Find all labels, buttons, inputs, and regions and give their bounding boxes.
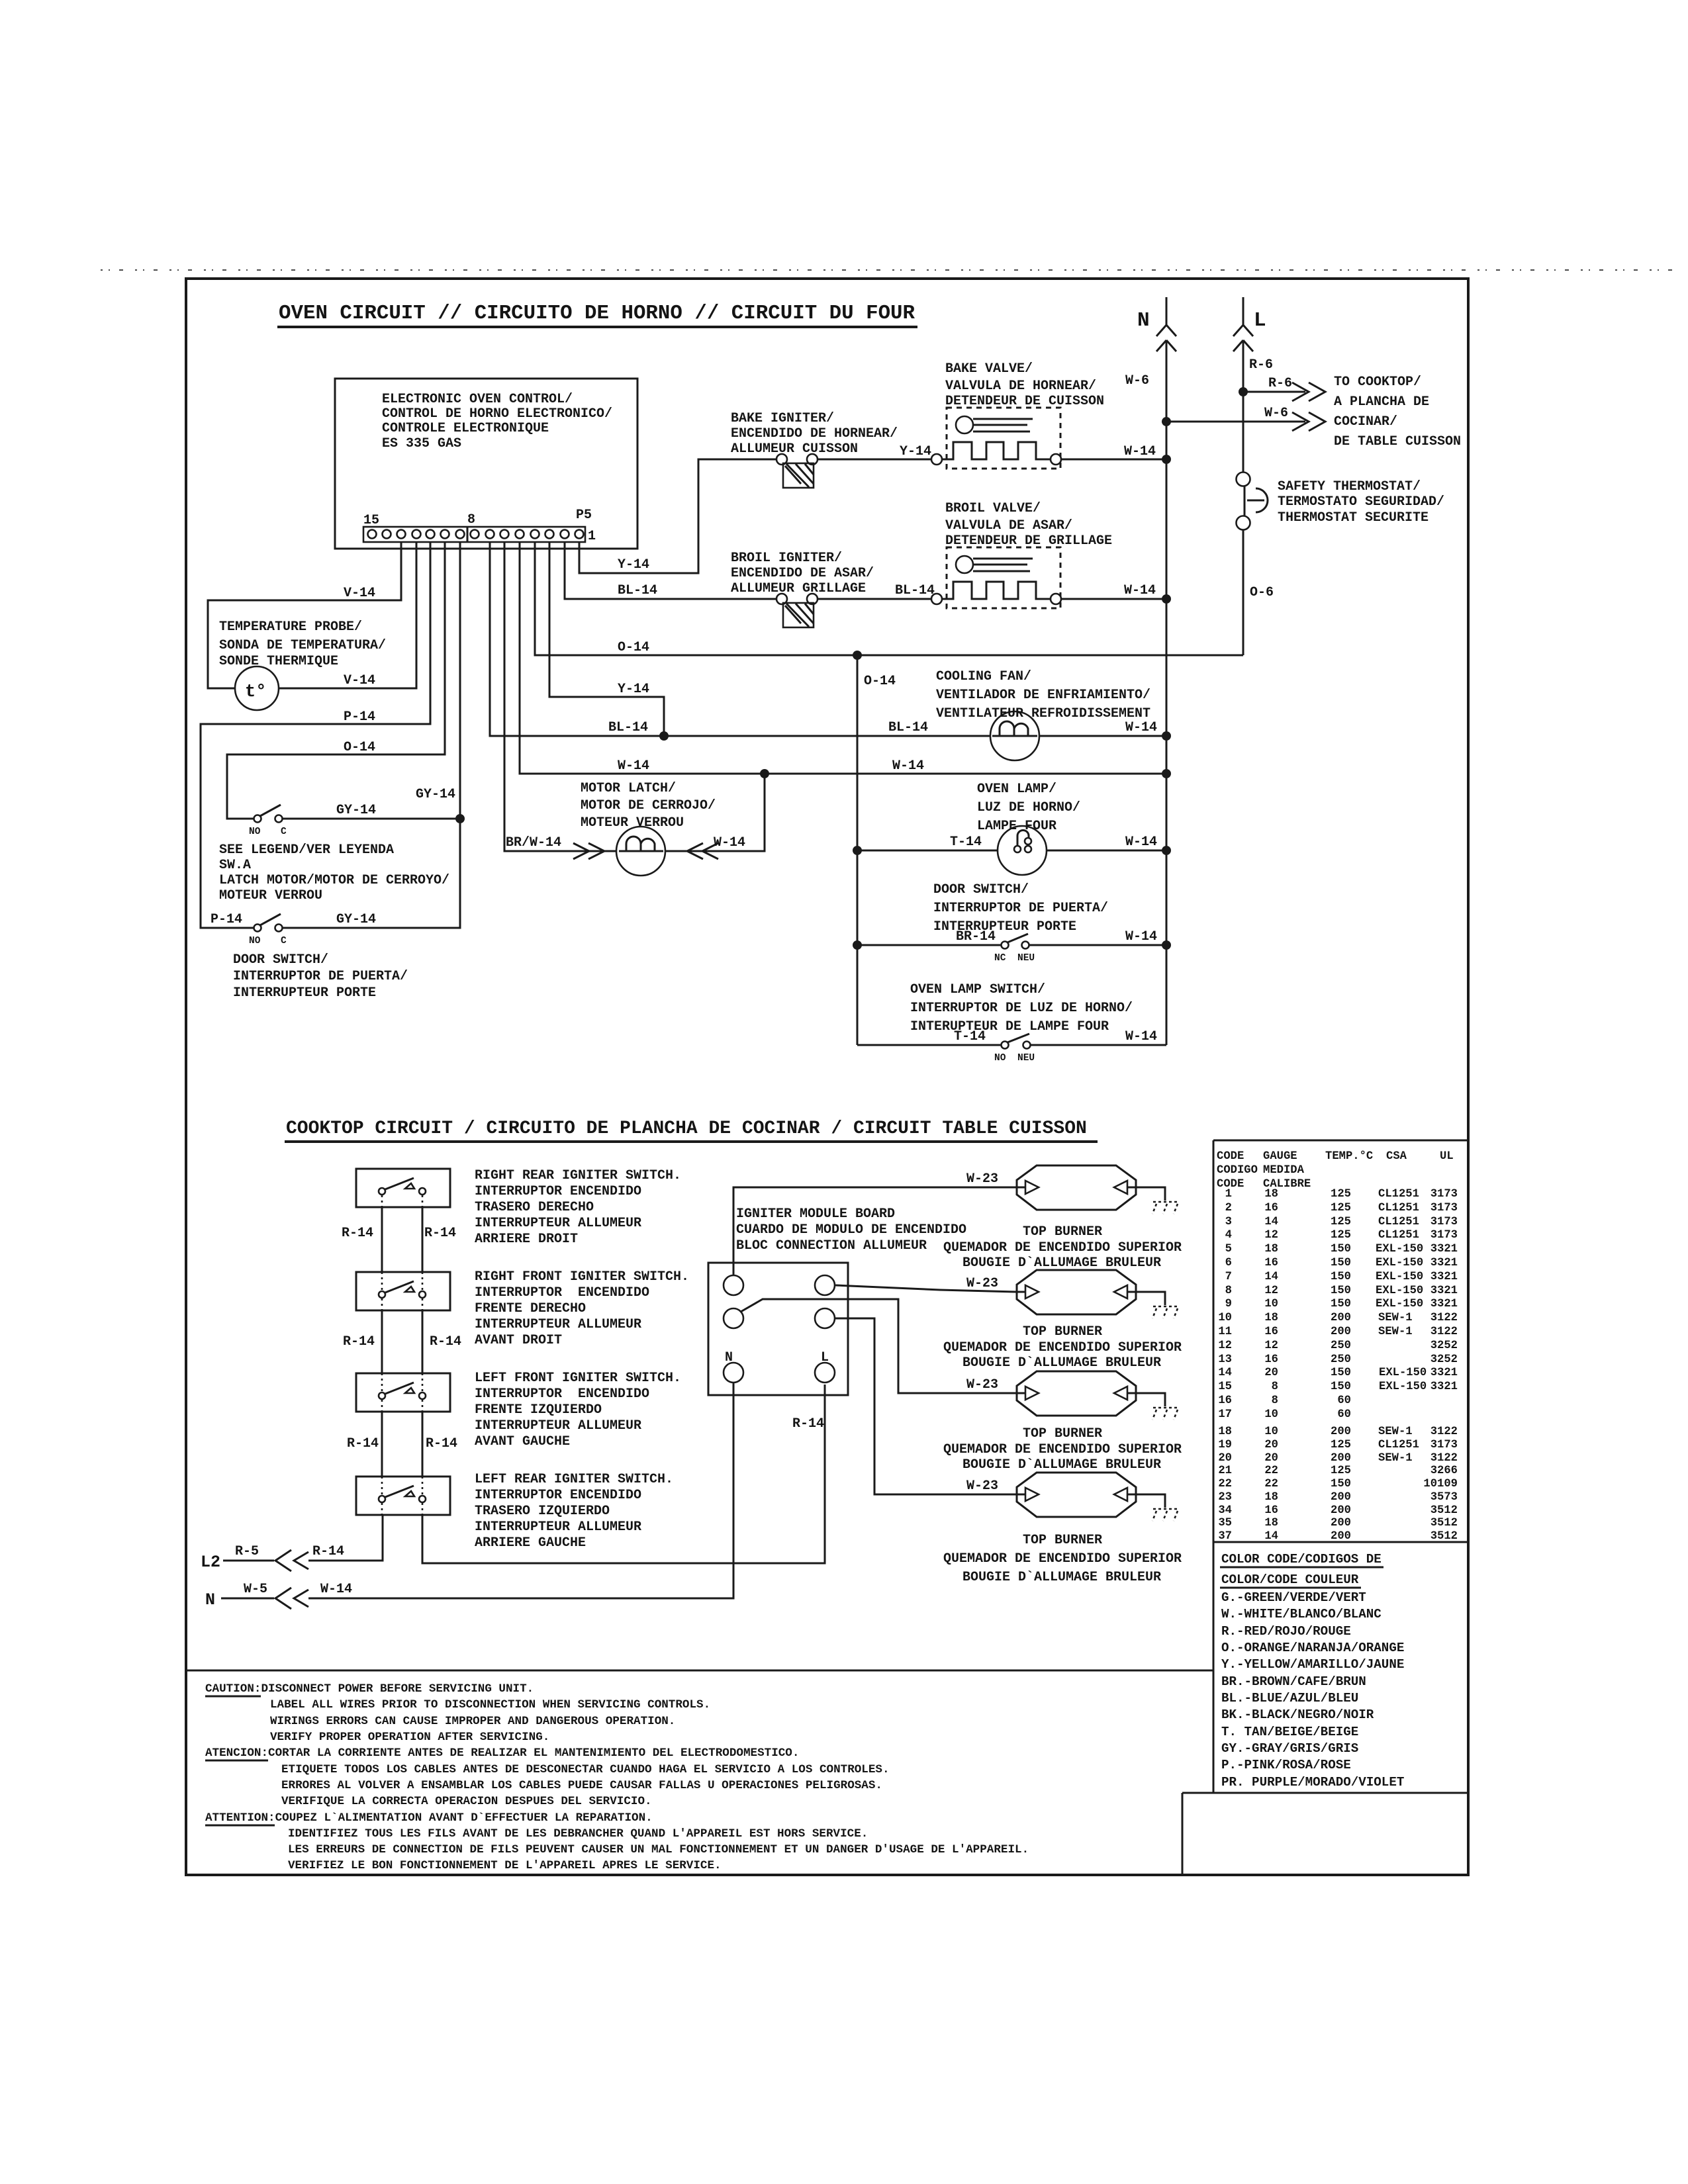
svg-text:15: 15	[1218, 1381, 1232, 1393]
svg-text:INTERRUPTEUR ALLUMEUR: INTERRUPTEUR ALLUMEUR	[475, 1418, 641, 1433]
door switch NC	[1002, 942, 1009, 949]
pin 7	[486, 530, 494, 539]
svg-text:14: 14	[1218, 1367, 1232, 1379]
svg-text:DE TABLE CUISSON: DE TABLE CUISSON	[1334, 434, 1461, 449]
svg-text:200: 200	[1331, 1491, 1351, 1504]
svg-text:MOTOR DE CERROJO/: MOTOR DE CERROJO/	[581, 798, 716, 813]
svg-text:LATCH MOTOR/MOTOR DE CERROYO/: LATCH MOTOR/MOTOR DE CERROYO/	[219, 873, 449, 888]
svg-text:DOOR SWITCH/: DOOR SWITCH/	[933, 882, 1029, 897]
svg-text:3122: 3122	[1430, 1426, 1458, 1438]
svg-text:23: 23	[1218, 1491, 1232, 1504]
oven lamp switch NO	[1002, 1042, 1009, 1049]
svg-text:3512: 3512	[1430, 1504, 1458, 1517]
svg-text:COOLING FAN/: COOLING FAN/	[936, 669, 1031, 684]
svg-text:CL1251: CL1251	[1378, 1229, 1419, 1242]
wire R-14 between switch 2 and 3	[382, 1298, 422, 1392]
svg-text:O-14: O-14	[618, 640, 649, 655]
svg-text:10: 10	[1218, 1312, 1232, 1324]
svg-text:35: 35	[1218, 1517, 1232, 1529]
svg-text:THERMOSTAT SECURITE: THERMOSTAT SECURITE	[1278, 510, 1429, 525]
svg-text:DETENDEUR DE CUISSON: DETENDEUR DE CUISSON	[945, 394, 1104, 409]
svg-text:3173: 3173	[1430, 1439, 1458, 1451]
svg-text:EXL-150: EXL-150	[1376, 1285, 1423, 1297]
svg-text:R-14: R-14	[312, 1544, 344, 1559]
svg-text:GY-14: GY-14	[416, 787, 455, 802]
svg-text:OVEN CIRCUIT // CIRCUITO DE HO: OVEN CIRCUIT // CIRCUITO DE HORNO // CIR…	[279, 302, 915, 325]
caution box top divider	[186, 1670, 1213, 1672]
pin 5	[516, 530, 524, 539]
svg-text:19: 19	[1218, 1439, 1232, 1451]
caution notice text	[205, 1682, 1029, 1872]
svg-text:CL1251: CL1251	[1378, 1439, 1419, 1451]
svg-text:125: 125	[1331, 1439, 1351, 1451]
svg-text:125: 125	[1331, 1465, 1351, 1477]
svg-text:TOP BURNER: TOP BURNER	[1023, 1224, 1102, 1240]
latch motor switch SW.A	[254, 815, 261, 823]
svg-text:TOP BURNER: TOP BURNER	[1023, 1324, 1102, 1340]
wire W-6 arrow to cooktop	[1166, 421, 1305, 423]
svg-text:VALVULA DE HORNEAR/: VALVULA DE HORNEAR/	[945, 379, 1096, 394]
svg-text:3173: 3173	[1430, 1216, 1458, 1228]
svg-text:R-6: R-6	[1249, 357, 1273, 373]
svg-text:TRASERO DERECHO: TRASERO DERECHO	[475, 1200, 594, 1215]
color code box bottom edge	[1182, 1792, 1468, 1794]
svg-text:8: 8	[467, 512, 475, 527]
node broil W-14	[1162, 594, 1171, 604]
svg-text:W-14: W-14	[618, 758, 649, 774]
svg-text:AVANT GAUCHE: AVANT GAUCHE	[475, 1434, 570, 1449]
wire W-14 pin5	[520, 542, 1166, 774]
svg-text:8: 8	[1225, 1285, 1232, 1297]
svg-text:12: 12	[1218, 1340, 1232, 1352]
svg-text:BLOC CONNECTION ALLUMEUR: BLOC CONNECTION ALLUMEUR	[736, 1238, 927, 1253]
svg-text:CL1251: CL1251	[1378, 1216, 1419, 1228]
svg-text:R-14: R-14	[347, 1436, 379, 1451]
svg-text:200: 200	[1331, 1517, 1351, 1529]
cooling fan motor	[990, 711, 1039, 760]
svg-text:W-14: W-14	[1125, 929, 1157, 944]
broil igniter	[776, 594, 787, 604]
svg-text:GY.-GRAY/GRIS/GRIS: GY.-GRAY/GRIS/GRIS	[1221, 1741, 1358, 1756]
svg-text:NO: NO	[249, 936, 261, 946]
svg-text:O-14: O-14	[344, 740, 375, 755]
svg-text:CSA: CSA	[1386, 1150, 1407, 1163]
svg-text:DOOR SWITCH/: DOOR SWITCH/	[233, 952, 328, 968]
wire BL-14 pin2 to broil igniter	[565, 542, 776, 599]
motor latch	[616, 827, 665, 876]
svg-text:200: 200	[1331, 1530, 1351, 1543]
svg-text:INTERRUPTOR ENCENDIDO: INTERRUPTOR ENCENDIDO	[475, 1387, 649, 1402]
svg-text:DETENDEUR DE GRILLAGE: DETENDEUR DE GRILLAGE	[945, 533, 1112, 549]
svg-text:ARRIERE DROIT: ARRIERE DROIT	[475, 1232, 578, 1247]
svg-text:L: L	[1254, 309, 1266, 332]
svg-text:BL.-BLUE/AZUL/BLEU: BL.-BLUE/AZUL/BLEU	[1221, 1691, 1358, 1706]
svg-text:LUZ DE HORNO/: LUZ DE HORNO/	[977, 800, 1080, 815]
svg-text:17: 17	[1218, 1408, 1232, 1421]
wire junction down to door switch row	[283, 819, 460, 928]
svg-text:5: 5	[1225, 1243, 1232, 1255]
svg-text:WIRINGS ERRORS CAN CAUSE IMPRO: WIRINGS ERRORS CAN CAUSE IMPROPER AND DA…	[270, 1715, 675, 1728]
svg-text:INTERUPTEUR DE LAMPE FOUR: INTERUPTEUR DE LAMPE FOUR	[910, 1019, 1109, 1034]
svg-text:3573: 3573	[1430, 1491, 1458, 1504]
svg-text:125: 125	[1331, 1229, 1351, 1242]
svg-text:RIGHT REAR IGNITER SWITCH.: RIGHT REAR IGNITER SWITCH.	[475, 1168, 681, 1183]
svg-text:BOUGIE D`ALLUMAGE BRULEUR: BOUGIE D`ALLUMAGE BRULEUR	[962, 1570, 1161, 1585]
pin 6	[500, 530, 509, 539]
svg-text:QUEMADOR DE ENCENDIDO SUPERIOR: QUEMADOR DE ENCENDIDO SUPERIOR	[943, 1442, 1182, 1457]
svg-text:EXL-150: EXL-150	[1376, 1298, 1423, 1310]
svg-text:1: 1	[1225, 1188, 1232, 1201]
svg-text:FRENTE DERECHO: FRENTE DERECHO	[475, 1301, 586, 1316]
pin 2	[561, 530, 569, 539]
svg-text:EXL-150: EXL-150	[1376, 1257, 1423, 1269]
svg-text:W-14: W-14	[1125, 1029, 1157, 1044]
wire W-14 door switch to N rail	[1029, 944, 1166, 946]
node bake W-14	[1162, 455, 1171, 464]
safety thermostat	[1237, 473, 1250, 486]
wire R-14 L2 to switch chain	[308, 1515, 383, 1561]
svg-text:RIGHT FRONT IGNITER SWITCH.: RIGHT FRONT IGNITER SWITCH.	[475, 1269, 689, 1285]
wire W-14 motor latch right	[665, 774, 765, 851]
svg-text:34: 34	[1218, 1504, 1232, 1517]
svg-text:13: 13	[1218, 1353, 1232, 1366]
svg-text:ARRIERE GAUCHE: ARRIERE GAUCHE	[475, 1535, 586, 1551]
wire W-23 module to burner 3	[741, 1299, 1017, 1393]
svg-text:3321: 3321	[1430, 1381, 1458, 1393]
wire O-14 pin4 to safety thermostat rail	[535, 542, 1243, 655]
left front igniter switch	[356, 1373, 450, 1412]
svg-text:18: 18	[1264, 1243, 1278, 1255]
svg-text:200: 200	[1331, 1312, 1351, 1324]
wire Y-14 pin1 to bake igniter	[579, 459, 776, 573]
svg-text:QUEMADOR DE ENCENDIDO SUPERIOR: QUEMADOR DE ENCENDIDO SUPERIOR	[943, 1240, 1182, 1255]
svg-text:MOTEUR VERROU: MOTEUR VERROU	[219, 888, 322, 903]
svg-text:P-14: P-14	[211, 912, 242, 927]
svg-text:BOUGIE D`ALLUMAGE BRULEUR: BOUGIE D`ALLUMAGE BRULEUR	[962, 1255, 1161, 1271]
pin 13	[397, 530, 406, 539]
svg-text:W-14: W-14	[1124, 583, 1156, 598]
wire R-14 between switch 1 and 2	[382, 1195, 422, 1291]
svg-text:W-14: W-14	[1125, 835, 1157, 850]
svg-text:Y-14: Y-14	[618, 557, 649, 572]
svg-text:20: 20	[1218, 1452, 1232, 1465]
svg-text:16: 16	[1264, 1257, 1278, 1269]
svg-text:P.-PINK/ROSA/ROSE: P.-PINK/ROSA/ROSE	[1221, 1758, 1351, 1772]
svg-text:150: 150	[1331, 1271, 1351, 1283]
ground burner 3	[1152, 1408, 1178, 1420]
svg-text:V-14: V-14	[344, 586, 375, 601]
igniter module board	[708, 1263, 848, 1395]
svg-text:NEU: NEU	[1017, 953, 1035, 964]
svg-text:O-6: O-6	[1250, 585, 1274, 600]
svg-text:LES ERREURS DE CONNECTION DE F: LES ERREURS DE CONNECTION DE FILS PEUVEN…	[288, 1843, 1029, 1856]
svg-text:SAFETY THERMOSTAT/: SAFETY THERMOSTAT/	[1278, 479, 1421, 494]
svg-text:R-14: R-14	[792, 1416, 824, 1432]
L supply terminal	[1233, 297, 1253, 336]
svg-text:15: 15	[363, 513, 379, 528]
svg-text:R-14: R-14	[424, 1226, 456, 1241]
svg-text:VERIFIEZ LE BON FONCTIONNEMENT: VERIFIEZ LE BON FONCTIONNEMENT DE L'APPA…	[288, 1859, 722, 1872]
svg-text:W-6: W-6	[1264, 406, 1288, 421]
temperature probe sensor t	[235, 666, 279, 710]
svg-text:3512: 3512	[1430, 1530, 1458, 1543]
pin 15	[368, 530, 377, 539]
svg-text:20: 20	[1264, 1367, 1278, 1379]
wire W-14 bake valve to N rail	[1061, 459, 1166, 461]
svg-text:INTERRUPTOR DE LUZ DE HORNO/: INTERRUPTOR DE LUZ DE HORNO/	[910, 1001, 1133, 1016]
svg-text:16: 16	[1264, 1504, 1278, 1517]
page frame border	[186, 279, 1468, 1875]
svg-text:NC: NC	[994, 953, 1006, 964]
svg-text:125: 125	[1331, 1188, 1351, 1201]
svg-text:BL-14: BL-14	[895, 583, 935, 598]
oven lamp	[998, 826, 1047, 875]
svg-text:14: 14	[1264, 1271, 1278, 1283]
svg-text:INTERRUPTEUR PORTE: INTERRUPTEUR PORTE	[233, 985, 376, 1001]
wire W-23 module to burner 4	[835, 1318, 1017, 1494]
svg-text:INTERRUPTOR DE PUERTA/: INTERRUPTOR DE PUERTA/	[233, 969, 408, 984]
svg-text:BROIL IGNITER/: BROIL IGNITER/	[731, 551, 842, 566]
svg-text:INTERRUPTOR ENCENDIDO: INTERRUPTOR ENCENDIDO	[475, 1184, 641, 1199]
wire R-14 switch chain to module board L	[422, 1503, 424, 1515]
svg-text:SONDA DE TEMPERATURA/: SONDA DE TEMPERATURA/	[219, 638, 386, 653]
svg-text:10: 10	[1264, 1408, 1278, 1421]
svg-text:R-6: R-6	[1268, 376, 1292, 391]
top burner 2	[1017, 1270, 1136, 1314]
svg-text:SONDE THERMIQUE: SONDE THERMIQUE	[219, 654, 338, 669]
pin 11	[426, 530, 435, 539]
svg-text:22: 22	[1264, 1478, 1278, 1490]
wire GY-14 pin9 down	[459, 542, 461, 819]
svg-text:W-14: W-14	[320, 1582, 352, 1597]
svg-text:GY-14: GY-14	[336, 912, 376, 927]
svg-text:ES 335 GAS: ES 335 GAS	[382, 436, 461, 451]
bake igniter	[776, 454, 787, 465]
svg-text:BROIL VALVE/: BROIL VALVE/	[945, 501, 1041, 516]
svg-text:3321: 3321	[1430, 1271, 1458, 1283]
svg-text:W-14: W-14	[1124, 444, 1156, 459]
svg-text:Y-14: Y-14	[618, 682, 649, 697]
svg-text:12: 12	[1264, 1285, 1278, 1297]
svg-text:3: 3	[1225, 1216, 1232, 1228]
svg-text:INTERRUPTEUR ALLUMEUR: INTERRUPTEUR ALLUMEUR	[475, 1317, 641, 1332]
svg-text:150: 150	[1331, 1285, 1351, 1297]
door switch lower	[254, 925, 261, 932]
svg-text:3122: 3122	[1430, 1452, 1458, 1465]
svg-text:OVEN LAMP SWITCH/: OVEN LAMP SWITCH/	[910, 982, 1045, 997]
wire W-14 lamp to N rail	[1047, 850, 1166, 852]
svg-text:3512: 3512	[1430, 1517, 1458, 1529]
svg-text:QUEMADOR DE ENCENDIDO SUPERIOR: QUEMADOR DE ENCENDIDO SUPERIOR	[943, 1340, 1182, 1355]
svg-text:BOUGIE D`ALLUMAGE BRULEUR: BOUGIE D`ALLUMAGE BRULEUR	[962, 1457, 1161, 1473]
svg-text:TOP BURNER: TOP BURNER	[1023, 1533, 1102, 1548]
wire O-14 middle rail down	[857, 655, 859, 1045]
wire R-6 arrow to cooktop	[1243, 391, 1305, 393]
svg-text:MOTEUR VERROU: MOTEUR VERROU	[581, 815, 684, 831]
svg-text:W.-WHITE/BLANCO/BLANC: W.-WHITE/BLANCO/BLANC	[1221, 1607, 1382, 1621]
svg-text:BL-14: BL-14	[618, 583, 657, 598]
wire bake igniter to bake valve	[818, 459, 931, 461]
svg-text:SEW-1: SEW-1	[1378, 1326, 1413, 1338]
pin 4	[531, 530, 539, 539]
svg-text:12: 12	[1264, 1229, 1278, 1242]
svg-text:60: 60	[1337, 1408, 1351, 1421]
color code legend list	[1221, 1590, 1404, 1790]
svg-text:SEW-1: SEW-1	[1378, 1452, 1413, 1465]
wire V-14 temperature probe to pin12	[279, 542, 416, 688]
svg-text:ENCENDIDO DE ASAR/: ENCENDIDO DE ASAR/	[731, 566, 874, 581]
svg-text:SEE LEGEND/VER LEYENDA: SEE LEGEND/VER LEYENDA	[219, 842, 394, 858]
svg-text:LABEL ALL WIRES PRIOR TO DISCO: LABEL ALL WIRES PRIOR TO DISCONNECTION W…	[270, 1698, 710, 1711]
right front igniter switch	[356, 1272, 450, 1310]
node GY-14 junction	[455, 814, 465, 823]
pin 1	[575, 530, 584, 539]
svg-text:NEU: NEU	[1017, 1053, 1035, 1064]
connector strip P5	[363, 527, 585, 542]
svg-text:8: 8	[1272, 1381, 1278, 1393]
svg-text:200: 200	[1331, 1504, 1351, 1517]
svg-text:INTERRUPTEUR ALLUMEUR: INTERRUPTEUR ALLUMEUR	[475, 1520, 641, 1535]
svg-text:16: 16	[1264, 1202, 1278, 1214]
svg-text:UL: UL	[1440, 1150, 1454, 1163]
svg-text:R.-RED/ROJO/ROUGE: R.-RED/ROJO/ROUGE	[1221, 1624, 1351, 1639]
svg-text:ALLUMEUR CUISSON: ALLUMEUR CUISSON	[731, 441, 858, 457]
svg-text:150: 150	[1331, 1367, 1351, 1379]
svg-text:O-14: O-14	[864, 674, 896, 689]
svg-text:W-14: W-14	[714, 835, 745, 850]
svg-text:20: 20	[1264, 1439, 1278, 1451]
svg-text:2: 2	[1225, 1202, 1232, 1214]
gauge table bottom edge	[1213, 1541, 1468, 1543]
svg-text:200: 200	[1331, 1326, 1351, 1338]
top burner 3	[1017, 1371, 1136, 1416]
svg-text:ELECTRONIC OVEN CONTROL/: ELECTRONIC OVEN CONTROL/	[382, 392, 573, 407]
svg-text:11: 11	[1218, 1326, 1232, 1338]
svg-text:12: 12	[1264, 1340, 1278, 1352]
ground burner 1	[1152, 1202, 1178, 1214]
svg-text:VERIFIQUE LA CORRECTA OPERACIO: VERIFIQUE LA CORRECTA OPERACION DESPUES …	[281, 1795, 652, 1808]
svg-text:ERRORES AL VOLVER A ENSAMBLAR: ERRORES AL VOLVER A ENSAMBLAR LOS CABLES…	[281, 1779, 882, 1792]
gauge table top edge	[1213, 1140, 1468, 1142]
svg-text:CAUTION:DISCONNECT POWER BEFOR: CAUTION:DISCONNECT POWER BEFORE SERVICIN…	[205, 1682, 534, 1696]
svg-text:MEDIDA: MEDIDA	[1263, 1164, 1305, 1177]
svg-text:200: 200	[1331, 1426, 1351, 1438]
svg-text:VENTILADOR DE ENFRIAMIENTO/: VENTILADOR DE ENFRIAMIENTO/	[936, 688, 1150, 703]
pin 3	[545, 530, 554, 539]
bake valve	[947, 408, 1060, 469]
svg-text:T. TAN/BEIGE/BEIGE: T. TAN/BEIGE/BEIGE	[1221, 1725, 1358, 1739]
svg-text:8: 8	[1272, 1394, 1278, 1407]
svg-text:60: 60	[1337, 1394, 1351, 1407]
svg-text:SEW-1: SEW-1	[1378, 1312, 1413, 1324]
node fan W-14	[1162, 731, 1171, 741]
svg-text:150: 150	[1331, 1298, 1351, 1310]
svg-text:ETIQUETE TODOS LOS CABLES ANTE: ETIQUETE TODOS LOS CABLES ANTES DE DESCO…	[281, 1763, 890, 1776]
wire GY-14 switch to junction	[283, 818, 460, 820]
svg-text:ALLUMEUR GRILLAGE: ALLUMEUR GRILLAGE	[731, 581, 866, 596]
ground burner 2	[1152, 1306, 1178, 1318]
svg-text:20: 20	[1264, 1452, 1278, 1465]
svg-text:N: N	[725, 1350, 733, 1365]
svg-text:R-14: R-14	[343, 1334, 375, 1349]
wire W-14 broil valve to N rail	[1061, 598, 1166, 600]
svg-text:L2: L2	[201, 1553, 220, 1572]
svg-text:N: N	[1137, 309, 1150, 332]
svg-text:N: N	[205, 1590, 215, 1610]
svg-text:18: 18	[1264, 1491, 1278, 1504]
svg-text:GY-14: GY-14	[336, 803, 376, 818]
wire BL-14 pin7 to cooling fan	[490, 542, 990, 736]
wire O-14 pin10 to latch switch	[227, 542, 445, 819]
svg-text:3122: 3122	[1430, 1312, 1458, 1324]
svg-text:INTERRUPTEUR ALLUMEUR: INTERRUPTEUR ALLUMEUR	[475, 1216, 641, 1231]
svg-text:16: 16	[1218, 1394, 1232, 1407]
svg-text:3321: 3321	[1430, 1243, 1458, 1255]
svg-text:INTERRUPTOR ENCENDIDO: INTERRUPTOR ENCENDIDO	[475, 1488, 641, 1503]
svg-text:125: 125	[1331, 1202, 1351, 1214]
svg-text:3252: 3252	[1430, 1340, 1458, 1352]
svg-text:6: 6	[1225, 1257, 1232, 1269]
svg-text:22: 22	[1264, 1465, 1278, 1477]
svg-text:R-14: R-14	[426, 1436, 457, 1451]
broil valve	[947, 547, 1060, 608]
svg-text:200: 200	[1331, 1452, 1351, 1465]
svg-text:t°: t°	[245, 682, 266, 702]
svg-text:VALVULA DE ASAR/: VALVULA DE ASAR/	[945, 518, 1072, 533]
L rail wire R-6	[1243, 340, 1244, 472]
svg-text:ATTENTION:COUPEZ L`ALIMENTATIO: ATTENTION:COUPEZ L`ALIMENTATION AVANT D`…	[205, 1811, 653, 1825]
svg-text:125: 125	[1331, 1216, 1351, 1228]
left rear igniter switch	[356, 1477, 450, 1515]
svg-text:BOUGIE D`ALLUMAGE BRULEUR: BOUGIE D`ALLUMAGE BRULEUR	[962, 1355, 1161, 1371]
node Y-14/BL-14 junction	[659, 731, 669, 741]
svg-text:3321: 3321	[1430, 1298, 1458, 1310]
wire R-14 between switch 3 and 4	[382, 1400, 422, 1495]
svg-text:TEMPERATURE PROBE/: TEMPERATURE PROBE/	[219, 619, 362, 635]
svg-text:1: 1	[588, 529, 596, 544]
svg-text:BAKE VALVE/: BAKE VALVE/	[945, 361, 1033, 377]
svg-text:P-14: P-14	[344, 709, 375, 725]
svg-text:IDENTIFIEZ TOUS LES FILS AVANT: IDENTIFIEZ TOUS LES FILS AVANT DE LES DE…	[288, 1827, 868, 1841]
svg-text:EXL-150: EXL-150	[1376, 1243, 1423, 1255]
wire W-14 lamp switch to N rail	[1031, 1044, 1166, 1046]
svg-text:SW.A: SW.A	[219, 858, 251, 873]
svg-text:18: 18	[1218, 1426, 1232, 1438]
svg-text:CL1251: CL1251	[1378, 1188, 1419, 1201]
wire gauge table header	[1217, 1150, 1454, 1191]
svg-text:VERIFY PROPER OPERATION AFTER: VERIFY PROPER OPERATION AFTER SERVICING.	[270, 1731, 549, 1744]
node W-14 N rail	[1162, 769, 1171, 778]
svg-text:3252: 3252	[1430, 1353, 1458, 1366]
svg-text:CONTROL DE HORNO ELECTRONICO/: CONTROL DE HORNO ELECTRONICO/	[382, 406, 612, 422]
svg-text:AVANT DROIT: AVANT DROIT	[475, 1333, 562, 1348]
svg-text:QUEMADOR DE ENCENDIDO SUPERIOR: QUEMADOR DE ENCENDIDO SUPERIOR	[943, 1551, 1182, 1567]
svg-text:EXL-150: EXL-150	[1379, 1381, 1427, 1393]
svg-text:COLOR CODE/CODIGOS DE: COLOR CODE/CODIGOS DE	[1221, 1552, 1382, 1567]
wire BR-14 door switch row	[857, 944, 1001, 946]
svg-text:250: 250	[1331, 1340, 1351, 1352]
svg-text:21: 21	[1218, 1465, 1232, 1477]
svg-text:18: 18	[1264, 1517, 1278, 1529]
top burner 4	[1017, 1473, 1136, 1517]
svg-text:BAKE IGNITER/: BAKE IGNITER/	[731, 411, 834, 426]
wire BR/W-14 pin6 to motor latch	[504, 542, 616, 851]
svg-text:INTERRUPTEUR PORTE: INTERRUPTEUR PORTE	[933, 919, 1076, 934]
svg-text:BL-14: BL-14	[888, 720, 928, 735]
wire T-14 oven lamp switch row	[857, 1044, 1001, 1046]
svg-text:150: 150	[1331, 1257, 1351, 1269]
svg-text:150: 150	[1331, 1381, 1351, 1393]
